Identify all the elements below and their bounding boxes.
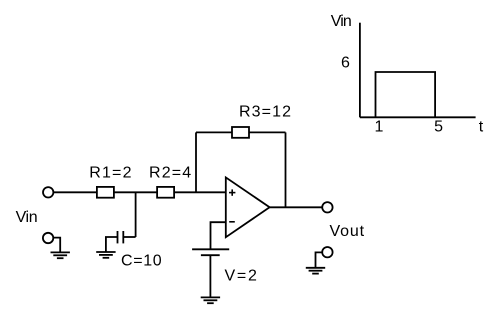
svg-text:R2=4: R2=4 [149, 164, 191, 181]
wire op-amp output [270, 206, 322, 208]
op-amp U1 [226, 177, 270, 237]
graph Vin y-axis [359, 23, 361, 118]
graph Vin pulse waveform [376, 72, 436, 117]
wire Vout-ref to ground [316, 252, 323, 267]
terminal Vout [322, 202, 332, 212]
svg-text:t: t [479, 119, 484, 136]
capacitor C right plate [122, 231, 124, 243]
svg-text:1: 1 [375, 119, 384, 136]
wire R2 to op-amp [174, 191, 226, 193]
terminal Vin reference [43, 233, 53, 243]
terminal Vout reference [322, 247, 332, 257]
op-amp minus input marker [229, 221, 235, 223]
wire battery to ground [209, 255, 211, 297]
graph Vin x-axis [360, 116, 476, 118]
battery V top plate [192, 248, 229, 250]
svg-text:V=2: V=2 [225, 268, 257, 285]
resistor R1 [97, 187, 114, 198]
ground Vin reference [51, 252, 70, 258]
resistor R3 [232, 127, 249, 138]
terminal Vin input [43, 187, 53, 197]
node capacitor tap [135, 192, 137, 237]
svg-text:C=10: C=10 [121, 253, 162, 270]
ground battery [201, 297, 220, 303]
svg-text:6: 6 [341, 54, 350, 71]
wire capacitor to ground [106, 237, 118, 252]
ground Vout reference [306, 268, 325, 274]
node feedback tap [195, 132, 197, 192]
wire feedback top right [249, 131, 286, 133]
wire feedback top left [196, 131, 232, 133]
op-amp plus input marker [229, 189, 235, 195]
svg-text:5: 5 [434, 119, 443, 136]
wire input to R1 [54, 191, 97, 193]
wire R1 to R2 [114, 191, 157, 193]
svg-text:R3=12: R3=12 [239, 103, 291, 120]
svg-text:R1=2: R1=2 [89, 164, 131, 181]
ground capacitor [96, 252, 115, 258]
resistor R2 [157, 187, 174, 198]
svg-text:Vout: Vout [330, 223, 365, 240]
battery V bottom plate [201, 254, 220, 256]
wire minus input to battery [211, 222, 226, 249]
svg-text:Vin: Vin [331, 13, 352, 30]
capacitor C left plate [117, 231, 119, 243]
wire down-leg to capacitor [123, 236, 135, 238]
wire feedback down to output [285, 132, 287, 207]
svg-text:Vin: Vin [16, 209, 38, 226]
wire Vin-ref to ground [54, 238, 61, 253]
